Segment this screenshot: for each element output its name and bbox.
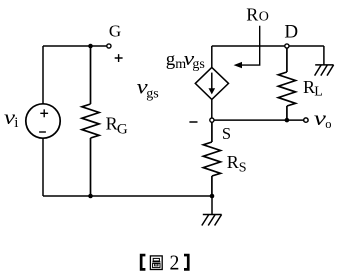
label vo — [314, 108, 332, 131]
node vo terminal — [304, 118, 308, 122]
label RG — [106, 114, 128, 138]
svg-text:i: i — [14, 115, 18, 131]
node D terminal — [285, 44, 289, 48]
wire top rail to ground corner — [212, 45, 324, 47]
svg-text:O: O — [259, 10, 269, 25]
svg-text:v: v — [314, 108, 326, 130]
label vi — [4, 107, 18, 131]
resistor RL — [278, 48, 295, 120]
svg-text:g: g — [166, 49, 176, 70]
caption character tu (figure) — [150, 256, 162, 270]
junction RG bottom — [88, 194, 93, 199]
label RL — [303, 77, 323, 99]
svg-text:gs: gs — [146, 86, 158, 101]
svg-text:R: R — [106, 114, 118, 134]
label RS — [227, 152, 247, 176]
svg-text:2: 2 — [170, 250, 180, 274]
svg-text:G: G — [117, 122, 128, 138]
label minus (vgs polarity) — [189, 121, 197, 123]
junction RS bottom — [210, 194, 215, 199]
caption bracket right — [184, 254, 190, 271]
label vgs — [137, 77, 159, 102]
svg-text:R: R — [246, 4, 258, 24]
ground top right — [315, 46, 334, 76]
resistor RS — [203, 122, 220, 196]
label gmvgs — [166, 49, 205, 72]
wire bottom horizontal — [43, 195, 212, 197]
svg-text:o: o — [325, 117, 331, 131]
resistor RG — [82, 46, 99, 196]
wire left vertical (source bottom) — [42, 138, 44, 196]
wire S to vo — [214, 119, 304, 121]
arrow RO pointer — [234, 26, 260, 69]
dependent source gm*vgs (diamond with down arrow) — [195, 67, 228, 99]
ground bottom — [202, 196, 222, 226]
junction RL bottom — [285, 118, 290, 123]
caption bracket left — [140, 254, 146, 271]
label RO — [246, 4, 269, 24]
svg-text:R: R — [227, 152, 239, 172]
node S terminal — [210, 118, 214, 122]
svg-text:D: D — [284, 22, 298, 43]
node G terminal — [107, 44, 111, 48]
svg-text:S: S — [239, 161, 247, 176]
label + (vgs polarity) — [115, 54, 123, 62]
svg-text:G: G — [109, 22, 121, 41]
wire top-left horizontal — [43, 45, 107, 47]
wire diamond top to rail — [211, 46, 213, 67]
wire diamond bottom to node S — [211, 99, 213, 118]
voltage source Vi — [26, 104, 60, 138]
svg-text:gs: gs — [192, 57, 204, 72]
wire left vertical (source top) — [42, 46, 44, 104]
junction gate wire — [88, 44, 93, 49]
svg-text:L: L — [314, 84, 323, 99]
svg-text:S: S — [222, 124, 231, 143]
